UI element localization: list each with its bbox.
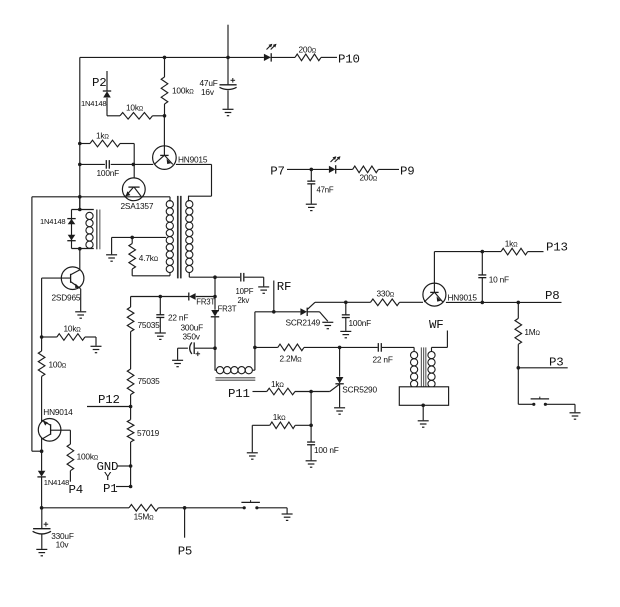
resistor 1k (base) <box>80 131 120 147</box>
wire R200 to P10 <box>321 56 337 58</box>
capacitor 100nF (SCR2149) <box>342 302 371 328</box>
wire T1 right bottom <box>189 272 215 277</box>
wire 1k gate left <box>252 425 269 452</box>
wire 22nF to WF <box>382 346 414 348</box>
resistor 1k (gate) <box>270 412 295 429</box>
wire 330 to Q4 <box>400 301 424 303</box>
wire to P9 <box>378 168 399 170</box>
wire right coil vertical <box>254 312 256 370</box>
wire SCR anode to 22nF <box>340 346 378 348</box>
ground (100nF gate) <box>306 461 317 467</box>
resistor 100k (P4) <box>67 444 99 471</box>
svg-text:1N4148: 1N4148 <box>44 478 69 487</box>
node junction 300uF/center <box>213 346 217 350</box>
resistor 1k (P13) <box>501 239 528 255</box>
node Y label <box>104 470 112 484</box>
thyristor SCR5290 <box>330 377 378 395</box>
wire diode to bottom rail <box>41 477 43 508</box>
svg-text:P12: P12 <box>98 393 120 407</box>
svg-text:P3: P3 <box>549 356 563 370</box>
transistor Q1 HN9015 <box>153 116 208 170</box>
wire 1k to SCR gate <box>295 391 330 393</box>
wire SCR2149 cathode <box>307 312 328 322</box>
wire outer-left loop <box>32 197 42 451</box>
core T1 <box>178 196 181 279</box>
wire 10PF to ground <box>245 277 264 286</box>
transistor Q4 HN9015 <box>423 252 477 307</box>
capacitor 330uF 10v <box>33 508 74 550</box>
svg-text:SCR5290: SCR5290 <box>342 385 377 395</box>
resistor 100ohm <box>38 351 66 376</box>
resistor 200ohm (P9) <box>353 166 379 182</box>
ground (10PF) <box>258 287 269 293</box>
svg-text:1N4148: 1N4148 <box>40 217 65 226</box>
svg-text:WF: WF <box>429 318 443 332</box>
wire base node to HN9015 <box>133 163 153 165</box>
node junction P3 <box>517 366 521 370</box>
ground (S1) <box>570 413 581 419</box>
node P13 <box>546 241 568 255</box>
svg-text:HN9015: HN9015 <box>178 155 208 165</box>
svg-text:75035: 75035 <box>138 376 161 386</box>
wire 10nF to P8 <box>481 278 483 303</box>
wire P3 down <box>518 368 533 405</box>
wire S1 to ground <box>546 404 575 412</box>
svg-text:2SD965: 2SD965 <box>52 293 81 303</box>
wire 330 row left <box>315 301 371 303</box>
resistor 200ohm (P10) <box>295 45 321 61</box>
wire 10k to ground <box>85 337 96 346</box>
wire chain top <box>130 297 132 308</box>
wire P2 stub <box>106 71 108 91</box>
node P7 <box>270 165 284 179</box>
wire mid rail y197 <box>32 196 170 198</box>
svg-text:FR3T: FR3T <box>196 298 215 307</box>
wire 300uF right <box>195 347 215 349</box>
capacitor 47uF 16v <box>200 57 237 97</box>
svg-text:57019: 57019 <box>137 428 160 438</box>
resistor 57019 <box>127 420 159 442</box>
ground (SCR2149) <box>322 322 333 328</box>
resistor 15M <box>129 505 158 522</box>
capacitor 300uF 350v <box>178 323 204 357</box>
diode FR3T (horizontal) <box>189 293 216 307</box>
wire FR3T to center <box>196 296 215 298</box>
wire P8 row <box>446 301 562 303</box>
ground (WF) <box>418 421 429 427</box>
capacitor 10nF <box>478 252 509 285</box>
wire 10k right lead <box>153 115 165 117</box>
svg-text:10PF: 10PF <box>236 287 254 296</box>
wire tap to ground <box>111 237 113 254</box>
resistor 1M <box>515 318 541 344</box>
node P5 <box>178 545 192 559</box>
svg-text:P11: P11 <box>228 387 250 401</box>
wire HN9015 emitter to transformer <box>176 164 212 196</box>
resistor 75035 (upper) <box>127 307 160 332</box>
thyristor SCR2149 <box>286 302 321 327</box>
svg-text:P1: P1 <box>103 482 117 496</box>
node P1 <box>103 482 117 496</box>
wire P1 stub <box>116 485 132 489</box>
wire 330uF to ground <box>41 534 43 549</box>
WF base box <box>399 387 448 406</box>
wire 2SD965 emitter <box>80 289 82 312</box>
svg-text:100 nF: 100 nF <box>314 445 339 455</box>
wire SCR5290 anode <box>339 347 341 376</box>
wire P12 <box>87 405 132 409</box>
node junction box top rail <box>78 195 82 199</box>
resistor 2.2M <box>278 344 304 363</box>
svg-text:47nF: 47nF <box>317 186 334 195</box>
svg-text:16v: 16v <box>201 87 215 97</box>
wire 100ohm down <box>41 376 43 470</box>
inductor winding (box) <box>86 212 93 248</box>
wire 4.7k to T1 bottom <box>132 269 170 276</box>
wire diode to 10k <box>107 110 120 116</box>
node P11 <box>228 387 250 401</box>
wire 1k gate right <box>295 424 311 426</box>
svg-text:P4: P4 <box>69 483 83 497</box>
svg-text:1N4148: 1N4148 <box>81 99 106 108</box>
svg-text:100nF: 100nF <box>349 318 372 328</box>
resistor 330ohm <box>371 289 400 306</box>
wire WF box ground <box>421 404 425 421</box>
svg-text:P13: P13 <box>546 241 568 255</box>
node junction 1k/left rail <box>78 142 82 146</box>
wire GND stub <box>117 464 132 468</box>
svg-text:SCR2149: SCR2149 <box>286 318 321 328</box>
wire bottom rail mid <box>158 507 243 509</box>
wire SCR5290 cathode <box>339 384 341 407</box>
node junction center/FR3T <box>213 295 217 299</box>
svg-text:22 nF: 22 nF <box>373 355 393 365</box>
node junction 1k/100nF <box>309 424 313 428</box>
wire LED to 200ohm <box>336 168 353 170</box>
wire 100nF gate ground <box>310 445 312 460</box>
svg-text:P5: P5 <box>178 545 192 559</box>
svg-text:75035: 75035 <box>138 320 161 330</box>
inductor WF secondary <box>428 347 435 387</box>
node junction 22nF <box>159 295 163 299</box>
capacitor 22nF (left) <box>156 297 188 323</box>
node GND label <box>97 460 119 474</box>
wire P5 stub <box>184 508 186 538</box>
node P10 <box>338 53 360 67</box>
svg-text:P10: P10 <box>338 53 360 67</box>
svg-text:100nF: 100nF <box>97 168 120 178</box>
node P12 <box>98 393 120 407</box>
node junction 100nF scr <box>344 301 348 305</box>
ground (47nF) <box>306 204 317 210</box>
svg-text:RF: RF <box>277 280 291 294</box>
wire to P13 <box>528 251 544 253</box>
wire 100k to P4 <box>69 471 71 482</box>
wire P3 row <box>518 367 567 369</box>
wire 2.2M to SCR anode <box>304 346 341 350</box>
node junction gate/100nF <box>309 390 313 394</box>
svg-text:22 nF: 22 nF <box>168 313 188 323</box>
svg-text:10v: 10v <box>56 540 70 550</box>
LED D5 <box>264 44 277 62</box>
wire box top stub <box>78 197 82 212</box>
ground (SCR5290) <box>334 408 345 414</box>
node P3 <box>549 356 563 370</box>
inductor WF primary <box>411 347 418 387</box>
inductor T1 primary (left winding) <box>166 197 173 273</box>
ground (300uF) <box>172 360 183 366</box>
wire 2.2M left <box>255 346 278 348</box>
wire RF stub <box>272 281 276 314</box>
node WF label <box>429 318 443 332</box>
wire left rail vertical <box>79 57 81 209</box>
node junction 100nF/left rail <box>78 163 82 167</box>
inductor L2 (horizontal coil) <box>215 367 255 374</box>
node junction 2.2M <box>253 346 257 350</box>
core L2 <box>216 378 256 381</box>
wire box bottom stub <box>78 247 82 270</box>
diode pack 1N4148 box <box>40 210 94 249</box>
wire T1 out to 10PF <box>215 276 240 278</box>
wire 47nF to ground <box>310 184 312 204</box>
wire supply stub <box>227 25 229 58</box>
capacitor 10PF 2kv <box>236 273 254 305</box>
diode FR3T (vertical) <box>211 305 237 317</box>
wire P11 lead <box>253 391 267 393</box>
wire VCC top rail <box>80 56 264 58</box>
resistor 10k (top) <box>120 103 153 120</box>
node junction 10k/100k <box>163 114 167 118</box>
svg-text:HN9015: HN9015 <box>448 293 478 303</box>
transistor Q5 HN9014 <box>38 407 73 441</box>
wire gate vertical <box>310 392 312 426</box>
core bars (box) <box>97 210 100 250</box>
ground (S2) <box>282 514 293 520</box>
capacitor 22nF (right) <box>373 343 393 364</box>
ground (22nF) <box>155 333 166 339</box>
svg-text:P2: P2 <box>92 76 106 90</box>
wire chain mid1 <box>130 332 132 369</box>
node junction 4.7k tap <box>130 236 134 240</box>
svg-text:2SA1357: 2SA1357 <box>121 201 154 211</box>
wire SCR2149 anode <box>255 311 301 313</box>
node junction bottom rail <box>40 506 44 510</box>
ground (330uF) <box>36 549 47 555</box>
transistor Q2 2SA1357 <box>121 178 154 211</box>
node RF label <box>277 280 291 294</box>
wire 300uF to ground <box>177 348 179 360</box>
inductor T1 secondary (right winding) <box>186 196 193 272</box>
svg-text:2kv: 2kv <box>238 296 250 305</box>
node junction 10nF top <box>481 250 485 254</box>
node junction P5 <box>183 506 187 510</box>
svg-text:P8: P8 <box>545 289 559 303</box>
transistor Q3 2SD965 <box>42 267 84 303</box>
resistor 4.7k <box>129 237 159 269</box>
node junction 1M/P8 <box>517 301 521 305</box>
wire S2 to ground <box>258 508 287 514</box>
svg-text:FR3T: FR3T <box>218 305 237 314</box>
diode D2a (box upper) <box>67 219 75 225</box>
wire 1M to P3 <box>517 344 519 368</box>
node junction HN9014/loop <box>40 449 44 453</box>
svg-text:P7: P7 <box>270 165 284 179</box>
node junction T1 out <box>213 275 217 279</box>
wire 1k to 2SA1357 collector <box>120 144 134 179</box>
wire chain mid2 <box>130 395 132 420</box>
core WF <box>421 347 425 386</box>
ground (tap) <box>106 255 117 261</box>
wire HN9014 right to 100k <box>61 430 70 444</box>
wire 22nF to ground <box>159 318 161 333</box>
node P8 <box>545 289 559 303</box>
wire collector row <box>434 251 501 253</box>
switch S1 (pushbutton) <box>531 397 550 406</box>
node P4 <box>69 483 83 497</box>
wire T1 left tap <box>112 236 166 238</box>
resistor 100k (top) <box>161 57 194 115</box>
diode 1N4148 (P2) <box>81 91 111 108</box>
node junction top rail / 47uF <box>226 56 230 60</box>
wire bottom rail <box>42 507 129 509</box>
ground (10k) <box>91 346 102 352</box>
node junction 47nF <box>310 168 314 172</box>
ground (47uF) <box>223 109 234 115</box>
node P9 <box>400 165 414 179</box>
wire center vertical lower <box>214 317 216 371</box>
wire center vertical upper <box>214 277 216 310</box>
svg-text:P9: P9 <box>400 165 414 179</box>
wire 100nF scr ground <box>345 318 347 331</box>
wire 47uF to ground <box>227 91 229 109</box>
node junction 10k base <box>40 335 44 339</box>
svg-text:10 nF: 10 nF <box>489 275 509 285</box>
capacitor 47nF <box>307 169 334 194</box>
capacitor 100nF (gate) <box>307 425 339 455</box>
diode D2b (box lower) <box>67 235 75 241</box>
wire 1M top <box>517 302 519 318</box>
ground (1k gate) <box>247 453 258 459</box>
switch S2 (pushbutton) <box>241 500 260 509</box>
resistor 10k (2SD965 base) <box>42 324 85 341</box>
wire chain bottom <box>130 442 132 487</box>
wire P7 row <box>287 168 329 170</box>
wire FR3T row <box>131 296 189 298</box>
ground (100nF scr) <box>340 331 351 337</box>
svg-text:350v: 350v <box>183 332 201 342</box>
capacitor 100nF (top) <box>80 160 119 178</box>
node junction base HN9015 <box>132 163 136 167</box>
diode 1N4148 (low) <box>37 471 69 487</box>
wire WF stub <box>432 331 448 348</box>
ground (2SD965) <box>75 312 86 318</box>
node P2 <box>92 76 106 90</box>
node junction top rail / 100k <box>163 56 167 60</box>
wire LED to R 200 <box>272 56 296 58</box>
resistor 1k (P11) <box>267 379 295 395</box>
resistor 75035 (lower) <box>127 369 160 395</box>
svg-text:HN9014: HN9014 <box>43 407 73 417</box>
node junction 10nF/P8 <box>481 301 485 305</box>
wire 100nF to base node <box>111 163 134 165</box>
wire diode cathode to corner <box>106 98 108 111</box>
LED D6 <box>329 156 341 173</box>
wire base rail vertical <box>41 278 43 351</box>
